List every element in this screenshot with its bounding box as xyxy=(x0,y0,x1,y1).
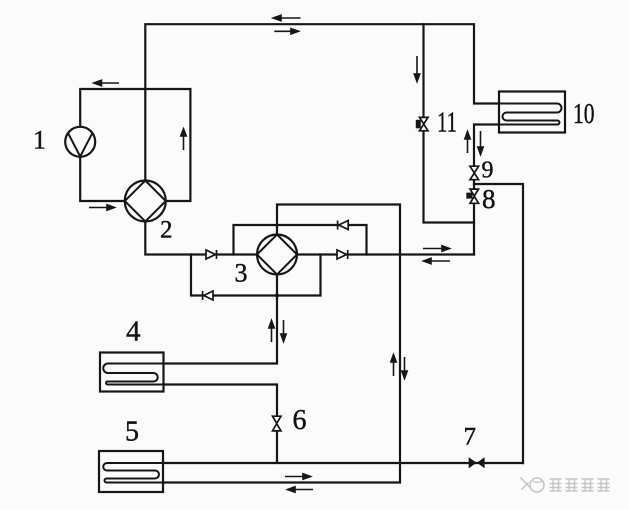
svg-text:4: 4 xyxy=(126,316,141,348)
svg-text:7: 7 xyxy=(464,423,477,450)
svg-text:1: 1 xyxy=(33,126,46,155)
svg-text:10: 10 xyxy=(573,98,595,130)
svg-text:9: 9 xyxy=(482,158,494,184)
svg-text:11: 11 xyxy=(437,108,457,139)
svg-text:6: 6 xyxy=(293,405,307,436)
svg-text:8: 8 xyxy=(482,184,496,214)
svg-text:3: 3 xyxy=(235,258,248,287)
svg-text:2: 2 xyxy=(160,217,173,244)
svg-text:5: 5 xyxy=(125,416,139,447)
